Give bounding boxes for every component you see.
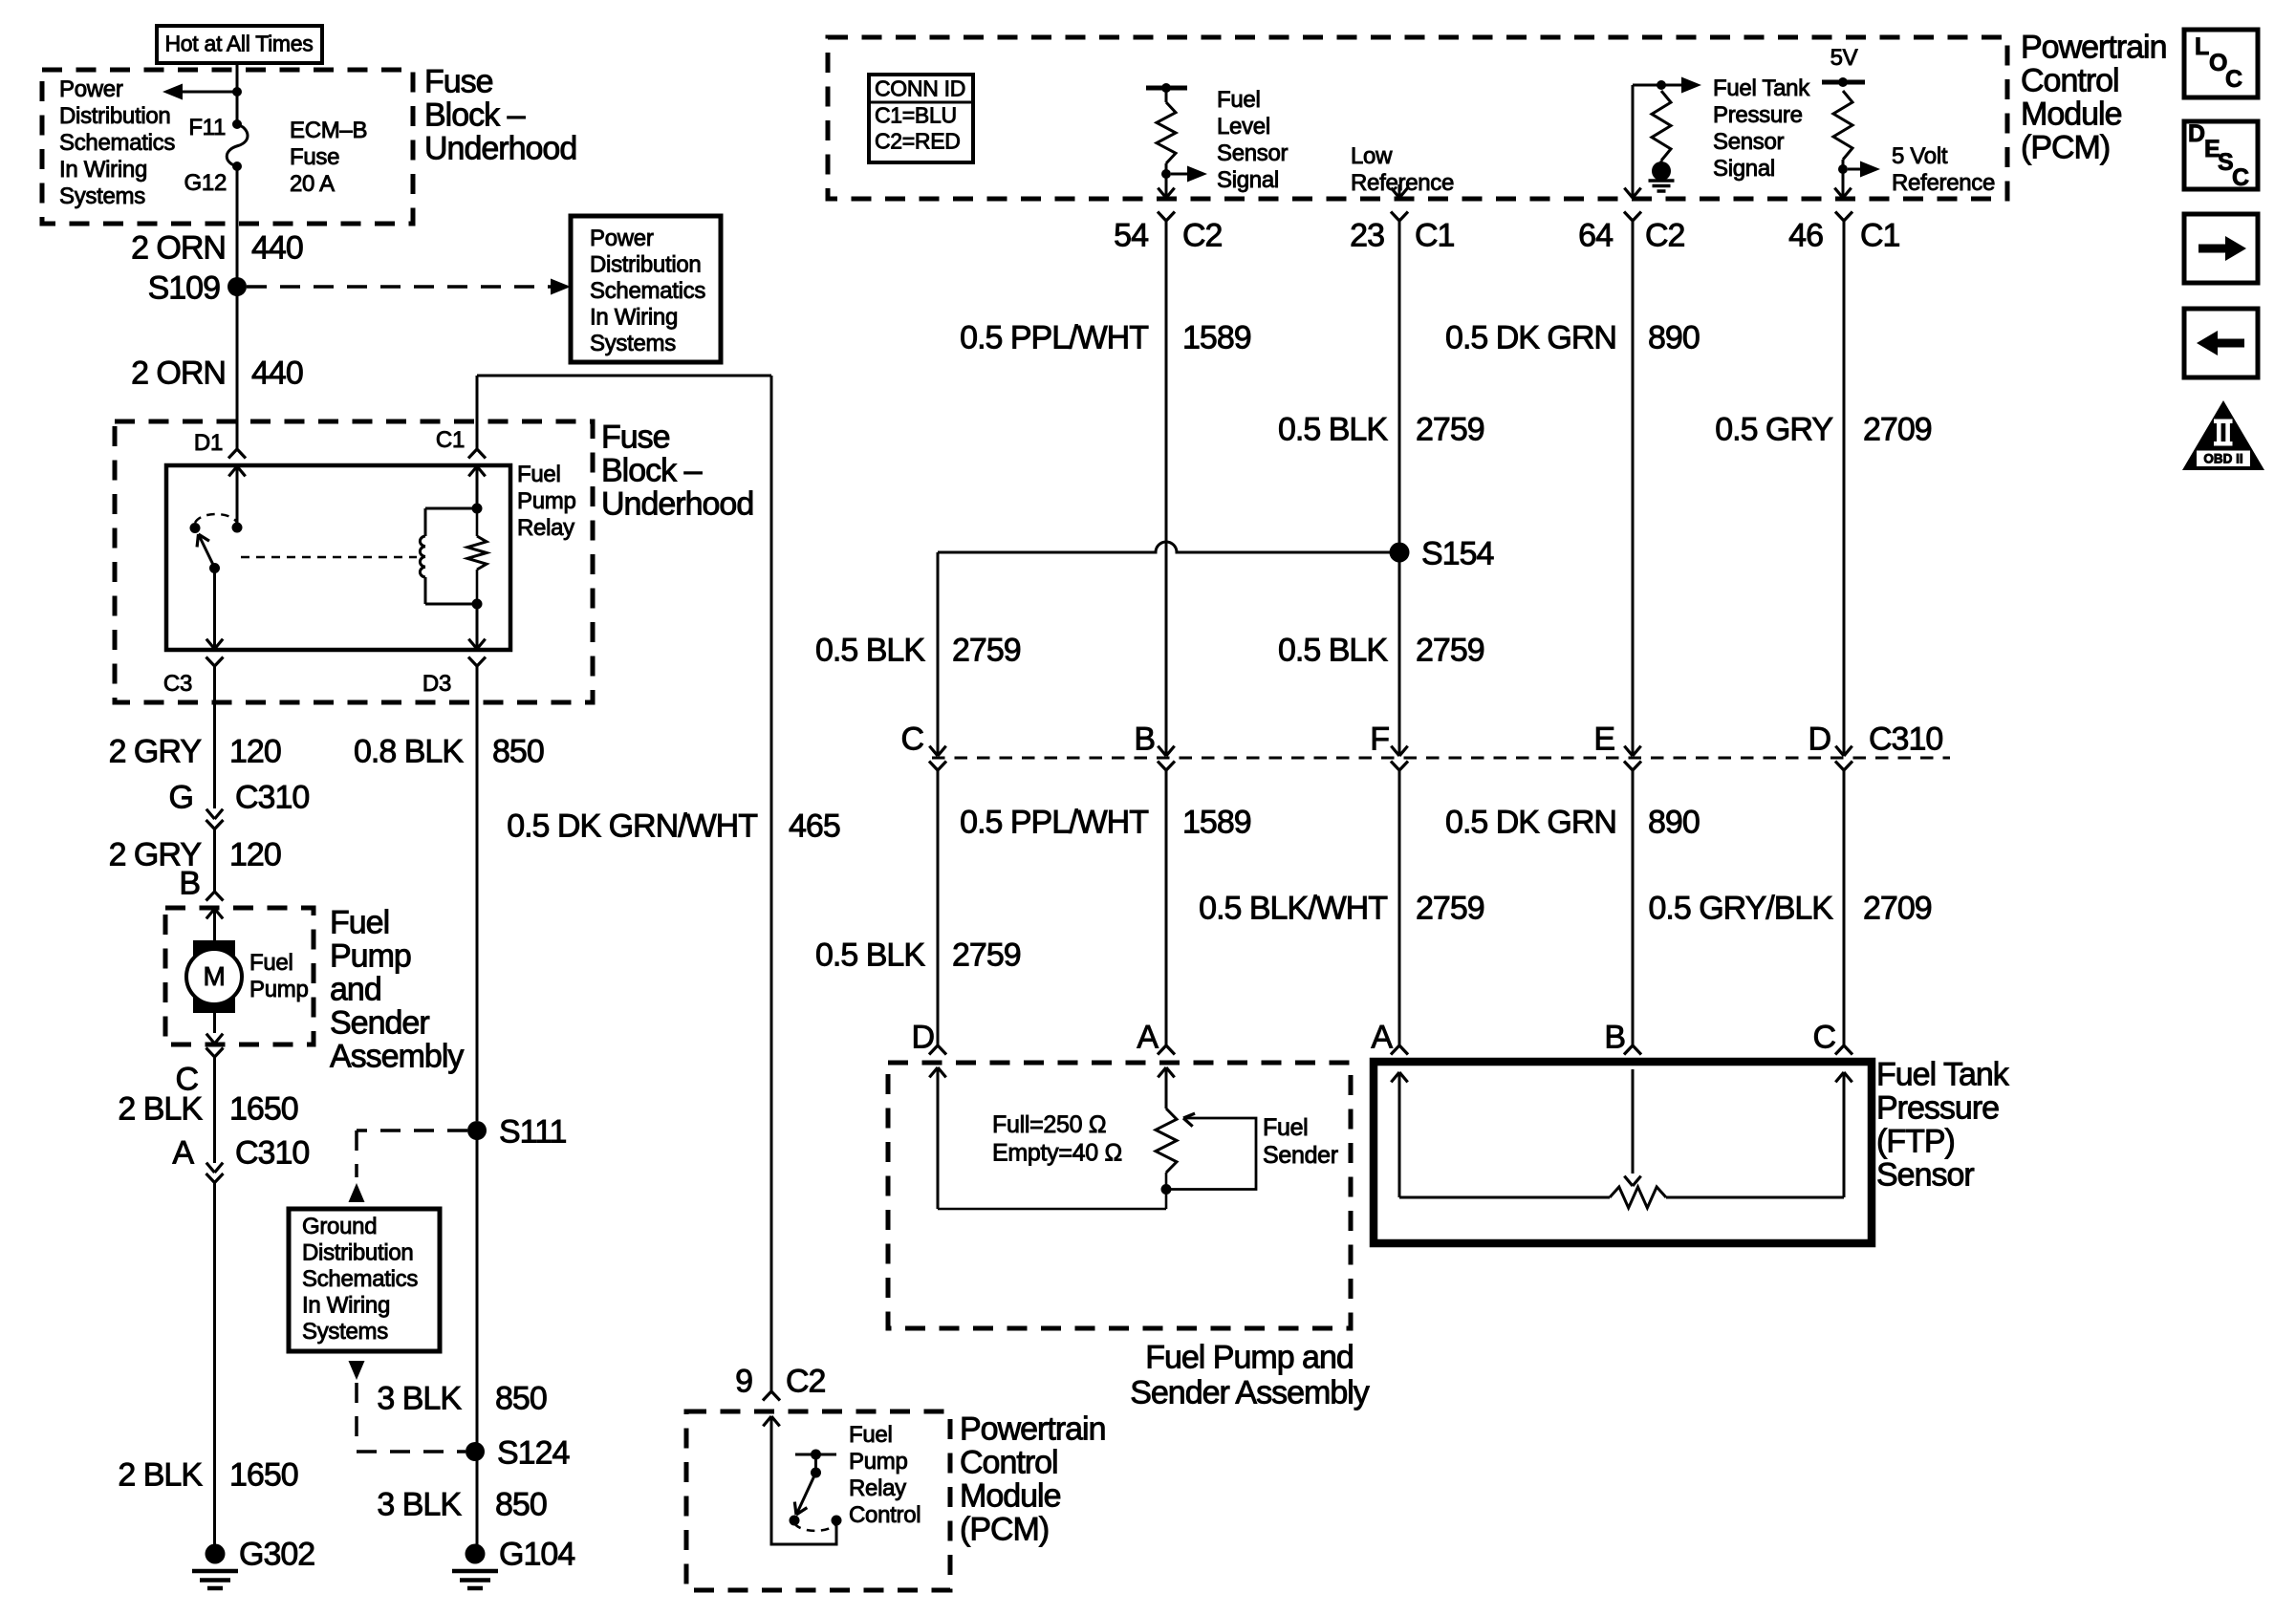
svg-text:Module: Module — [2021, 96, 2122, 132]
svg-text:Power: Power — [59, 76, 123, 102]
svg-text:440: 440 — [251, 355, 303, 391]
svg-text:C: C — [900, 721, 923, 757]
svg-text:0.5 BLK/WHT: 0.5 BLK/WHT — [1199, 890, 1387, 926]
svg-text:54: 54 — [1114, 217, 1148, 253]
svg-text:G104: G104 — [499, 1536, 574, 1572]
svg-text:Systems: Systems — [59, 183, 145, 209]
svg-text:Fuel: Fuel — [330, 904, 389, 940]
svg-text:46: 46 — [1788, 217, 1823, 253]
svg-text:2 BLK: 2 BLK — [118, 1456, 203, 1493]
svg-text:2759: 2759 — [952, 937, 1021, 973]
svg-text:Power: Power — [590, 226, 654, 251]
svg-text:0.5 BLK: 0.5 BLK — [815, 937, 925, 973]
svg-text:0.5 DK GRN/WHT: 0.5 DK GRN/WHT — [507, 807, 757, 844]
svg-text:S111: S111 — [499, 1113, 566, 1150]
svg-text:OBD II: OBD II — [2203, 452, 2242, 466]
svg-text:0.5 BLK: 0.5 BLK — [815, 632, 925, 668]
svg-text:Fuse: Fuse — [424, 63, 493, 99]
svg-text:In Wiring: In Wiring — [302, 1293, 390, 1319]
svg-text:S154: S154 — [1421, 535, 1493, 571]
svg-text:C2: C2 — [1645, 217, 1685, 253]
svg-text:120: 120 — [229, 836, 281, 872]
svg-text:Distribution: Distribution — [302, 1240, 413, 1266]
svg-text:C2: C2 — [786, 1363, 826, 1399]
svg-text:Control: Control — [960, 1444, 1058, 1480]
svg-text:Low: Low — [1351, 143, 1393, 169]
svg-text:Assembly: Assembly — [330, 1038, 464, 1074]
svg-text:Block –: Block – — [424, 97, 526, 133]
svg-text:Level: Level — [1217, 114, 1270, 140]
svg-text:S109: S109 — [148, 269, 220, 306]
svg-text:Pressure: Pressure — [1713, 102, 1803, 128]
svg-text:2759: 2759 — [1416, 411, 1484, 447]
svg-text:2 BLK: 2 BLK — [118, 1090, 203, 1127]
svg-text:Pressure: Pressure — [1876, 1089, 1999, 1126]
svg-text:Fuel: Fuel — [1217, 87, 1261, 113]
svg-text:Sensor: Sensor — [1876, 1156, 1974, 1193]
svg-text:Fuel Tank: Fuel Tank — [1713, 75, 1810, 101]
svg-text:(PCM): (PCM) — [960, 1511, 1049, 1547]
svg-text:2759: 2759 — [952, 632, 1021, 668]
svg-text:850: 850 — [495, 1380, 547, 1416]
svg-text:C: C — [2232, 164, 2249, 191]
svg-text:D: D — [1808, 721, 1830, 757]
svg-text:890: 890 — [1648, 319, 1700, 355]
svg-text:1650: 1650 — [229, 1090, 298, 1127]
svg-text:850: 850 — [495, 1486, 547, 1522]
svg-text:Systems: Systems — [590, 331, 676, 356]
svg-text:F11: F11 — [188, 115, 226, 140]
svg-text:2 ORN: 2 ORN — [131, 229, 226, 266]
svg-text:2709: 2709 — [1863, 411, 1932, 447]
svg-text:Signal: Signal — [1217, 167, 1279, 193]
svg-text:0.5 DK GRN: 0.5 DK GRN — [1445, 319, 1616, 355]
svg-text:0.5 GRY: 0.5 GRY — [1715, 411, 1832, 447]
svg-text:C310: C310 — [235, 1134, 309, 1171]
svg-text:Fuel: Fuel — [849, 1422, 893, 1448]
svg-text:G302: G302 — [239, 1536, 314, 1572]
svg-text:C2=RED: C2=RED — [875, 129, 961, 154]
svg-text:5V: 5V — [1830, 45, 1858, 71]
svg-text:Powertrain: Powertrain — [2021, 29, 2167, 65]
svg-text:0.5 PPL/WHT: 0.5 PPL/WHT — [960, 804, 1148, 840]
svg-text:A: A — [1137, 1019, 1159, 1055]
svg-text:Fuel Pump and: Fuel Pump and — [1145, 1339, 1354, 1375]
svg-text:Fuel Tank: Fuel Tank — [1876, 1056, 2010, 1092]
svg-text:Fuse: Fuse — [290, 144, 339, 170]
svg-text:Pump: Pump — [330, 937, 411, 974]
svg-text:64: 64 — [1578, 217, 1613, 253]
svg-text:Fuel: Fuel — [1263, 1114, 1308, 1141]
svg-text:E: E — [1593, 721, 1614, 757]
svg-text:In Wiring: In Wiring — [590, 305, 678, 331]
svg-text:Ground: Ground — [302, 1214, 377, 1239]
svg-text:C310: C310 — [1869, 721, 1942, 757]
svg-text:Pump: Pump — [517, 488, 576, 514]
svg-text:0.5 DK GRN: 0.5 DK GRN — [1445, 804, 1616, 840]
svg-text:120: 120 — [229, 733, 281, 769]
svg-text:Distribution: Distribution — [590, 252, 701, 278]
svg-text:Fuel: Fuel — [517, 462, 561, 487]
svg-text:and: and — [330, 971, 381, 1007]
svg-text:0.5 PPL/WHT: 0.5 PPL/WHT — [960, 319, 1148, 355]
svg-text:2 GRY: 2 GRY — [109, 733, 202, 769]
svg-text:Underhood: Underhood — [424, 130, 576, 166]
svg-text:Sensor: Sensor — [1713, 129, 1785, 155]
svg-text:M: M — [203, 961, 225, 991]
svg-text:2 ORN: 2 ORN — [131, 355, 226, 391]
svg-text:2709: 2709 — [1863, 890, 1932, 926]
svg-text:440: 440 — [251, 229, 303, 266]
svg-text:D1: D1 — [194, 430, 223, 456]
svg-text:9: 9 — [735, 1363, 752, 1399]
svg-text:Schematics: Schematics — [59, 130, 175, 156]
svg-text:C1: C1 — [1860, 217, 1900, 253]
svg-text:Sensor: Sensor — [1217, 140, 1289, 166]
svg-text:Hot at All Times: Hot at All Times — [165, 32, 314, 56]
svg-text:0.8 BLK: 0.8 BLK — [354, 733, 464, 769]
svg-text:Signal: Signal — [1713, 156, 1775, 182]
svg-text:Pump: Pump — [849, 1449, 908, 1475]
svg-text:G12: G12 — [184, 170, 227, 196]
svg-text:A: A — [1371, 1019, 1393, 1055]
svg-text:D: D — [911, 1019, 934, 1055]
svg-text:B: B — [1604, 1019, 1625, 1055]
svg-text:Sender: Sender — [330, 1004, 429, 1041]
svg-text:890: 890 — [1648, 804, 1700, 840]
svg-text:Pump: Pump — [249, 977, 309, 1002]
svg-text:C1=BLU: C1=BLU — [875, 103, 957, 128]
svg-text:S124: S124 — [497, 1434, 569, 1471]
svg-text:CONN ID: CONN ID — [875, 76, 965, 101]
svg-text:B: B — [179, 865, 200, 901]
svg-text:Empty=40 Ω: Empty=40 Ω — [992, 1139, 1122, 1166]
svg-text:1589: 1589 — [1182, 804, 1251, 840]
svg-text:Full=250 Ω: Full=250 Ω — [992, 1111, 1106, 1138]
svg-text:S: S — [2218, 149, 2233, 176]
svg-text:Schematics: Schematics — [590, 278, 705, 304]
svg-text:C310: C310 — [235, 779, 309, 815]
svg-text:C3: C3 — [163, 671, 192, 697]
svg-text:C1: C1 — [1415, 217, 1455, 253]
svg-text:Powertrain: Powertrain — [960, 1410, 1106, 1447]
svg-text:3 BLK: 3 BLK — [377, 1486, 462, 1522]
svg-text:2759: 2759 — [1416, 632, 1484, 668]
svg-text:D3: D3 — [422, 671, 451, 697]
svg-text:C2: C2 — [1182, 217, 1223, 253]
svg-text:5 Volt: 5 Volt — [1892, 143, 1948, 169]
svg-text:1589: 1589 — [1182, 319, 1251, 355]
svg-text:850: 850 — [492, 733, 544, 769]
svg-text:0.5 GRY/BLK: 0.5 GRY/BLK — [1649, 890, 1834, 926]
svg-text:23: 23 — [1350, 217, 1384, 253]
svg-text:Control: Control — [849, 1502, 921, 1528]
svg-text:3 BLK: 3 BLK — [377, 1380, 462, 1416]
svg-text:F: F — [1370, 721, 1389, 757]
svg-text:(FTP): (FTP) — [1876, 1123, 1955, 1159]
svg-text:C: C — [1812, 1019, 1835, 1055]
svg-text:465: 465 — [789, 807, 840, 844]
svg-text:G: G — [169, 779, 193, 815]
svg-text:(PCM): (PCM) — [2021, 129, 2110, 165]
svg-text:Distribution: Distribution — [59, 103, 170, 129]
svg-text:Relay: Relay — [849, 1475, 906, 1501]
svg-text:0.5 BLK: 0.5 BLK — [1278, 632, 1388, 668]
svg-text:20 A: 20 A — [290, 171, 335, 197]
svg-text:Systems: Systems — [302, 1319, 388, 1345]
svg-text:Schematics: Schematics — [302, 1266, 418, 1292]
svg-text:Relay: Relay — [517, 515, 574, 541]
svg-text:B: B — [1134, 721, 1155, 757]
svg-text:0.5 BLK: 0.5 BLK — [1278, 411, 1388, 447]
svg-text:L: L — [2195, 33, 2209, 60]
svg-text:C: C — [2225, 66, 2242, 93]
svg-text:Sender: Sender — [1263, 1142, 1338, 1169]
svg-text:1650: 1650 — [229, 1456, 298, 1493]
svg-text:Module: Module — [960, 1477, 1061, 1514]
svg-text:Reference: Reference — [1892, 170, 1995, 196]
svg-text:C1: C1 — [436, 427, 465, 453]
svg-text:D: D — [2188, 120, 2205, 147]
svg-text:ECM–B: ECM–B — [290, 118, 367, 143]
svg-text:Block –: Block – — [601, 452, 703, 488]
svg-text:Fuse: Fuse — [601, 419, 670, 455]
svg-text:2759: 2759 — [1416, 890, 1484, 926]
svg-text:Fuel: Fuel — [249, 950, 293, 976]
svg-text:Sender Assembly: Sender Assembly — [1130, 1374, 1370, 1410]
svg-text:In Wiring: In Wiring — [59, 157, 147, 183]
svg-text:Underhood: Underhood — [601, 485, 753, 522]
svg-text:A: A — [172, 1134, 194, 1171]
svg-text:Control: Control — [2021, 62, 2119, 98]
